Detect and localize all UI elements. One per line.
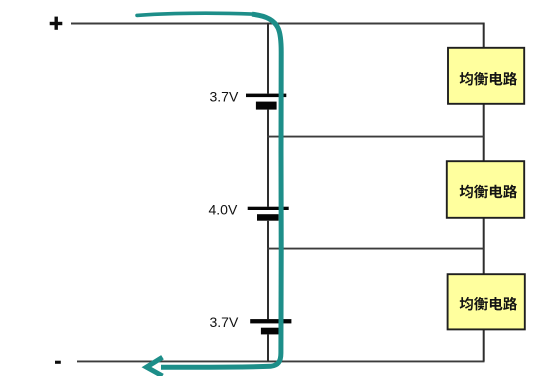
battery B2 positive plate (248, 207, 289, 210)
wire right rail segment: U1 to U2 through tap 1 (483, 104, 485, 161)
label U2 均衡电路 (460, 185, 517, 199)
battery B3 positive plate (250, 319, 291, 323)
battery B1 negative plate (256, 102, 277, 110)
balancing current loop arrow: bend and vertical run and bottom run (161, 14, 281, 367)
label U3 均衡电路 (460, 297, 517, 311)
wire battery string rail segment top (267, 23, 269, 94)
label U1 均衡电路 (460, 72, 517, 86)
balancing circuit box U2 (447, 161, 524, 218)
wire battery string rail segment between B1 and B2 (267, 110, 269, 207)
wire tap 2 between B2 and B3 to right rail (267, 248, 484, 250)
wire top bus from + to right rail (71, 23, 485, 25)
wire right rail segment: U2 to U3 (483, 218, 485, 274)
svg-text:4.0V: 4.0V (209, 201, 238, 217)
balancing circuit box U3 (448, 274, 525, 329)
wire tap 1 between B1 and B2 to right rail (267, 136, 484, 138)
wire battery string rail segment bottom (267, 334, 269, 361)
wire battery string rail segment between B2 and B3 (267, 221, 269, 319)
wire bottom bus from - to right rail (77, 360, 485, 362)
node + (positive terminal symbol) (50, 17, 63, 30)
wire right rail segment: U3 to bottom bus (483, 329, 485, 361)
node - (negative terminal symbol) (55, 361, 61, 364)
balancing circuit box U1 (448, 48, 524, 104)
battery B3 negative plate (261, 328, 279, 335)
battery B1 positive plate (246, 94, 286, 98)
svg-text:3.7V: 3.7V (210, 314, 239, 330)
wire right rail segment: top bus to U1 (483, 23, 485, 48)
balancing current loop arrowhead (147, 357, 163, 376)
battery B2 negative plate (257, 214, 279, 221)
balancing current loop arrow: top run (137, 13, 252, 15)
svg-text:3.7V: 3.7V (210, 88, 239, 104)
